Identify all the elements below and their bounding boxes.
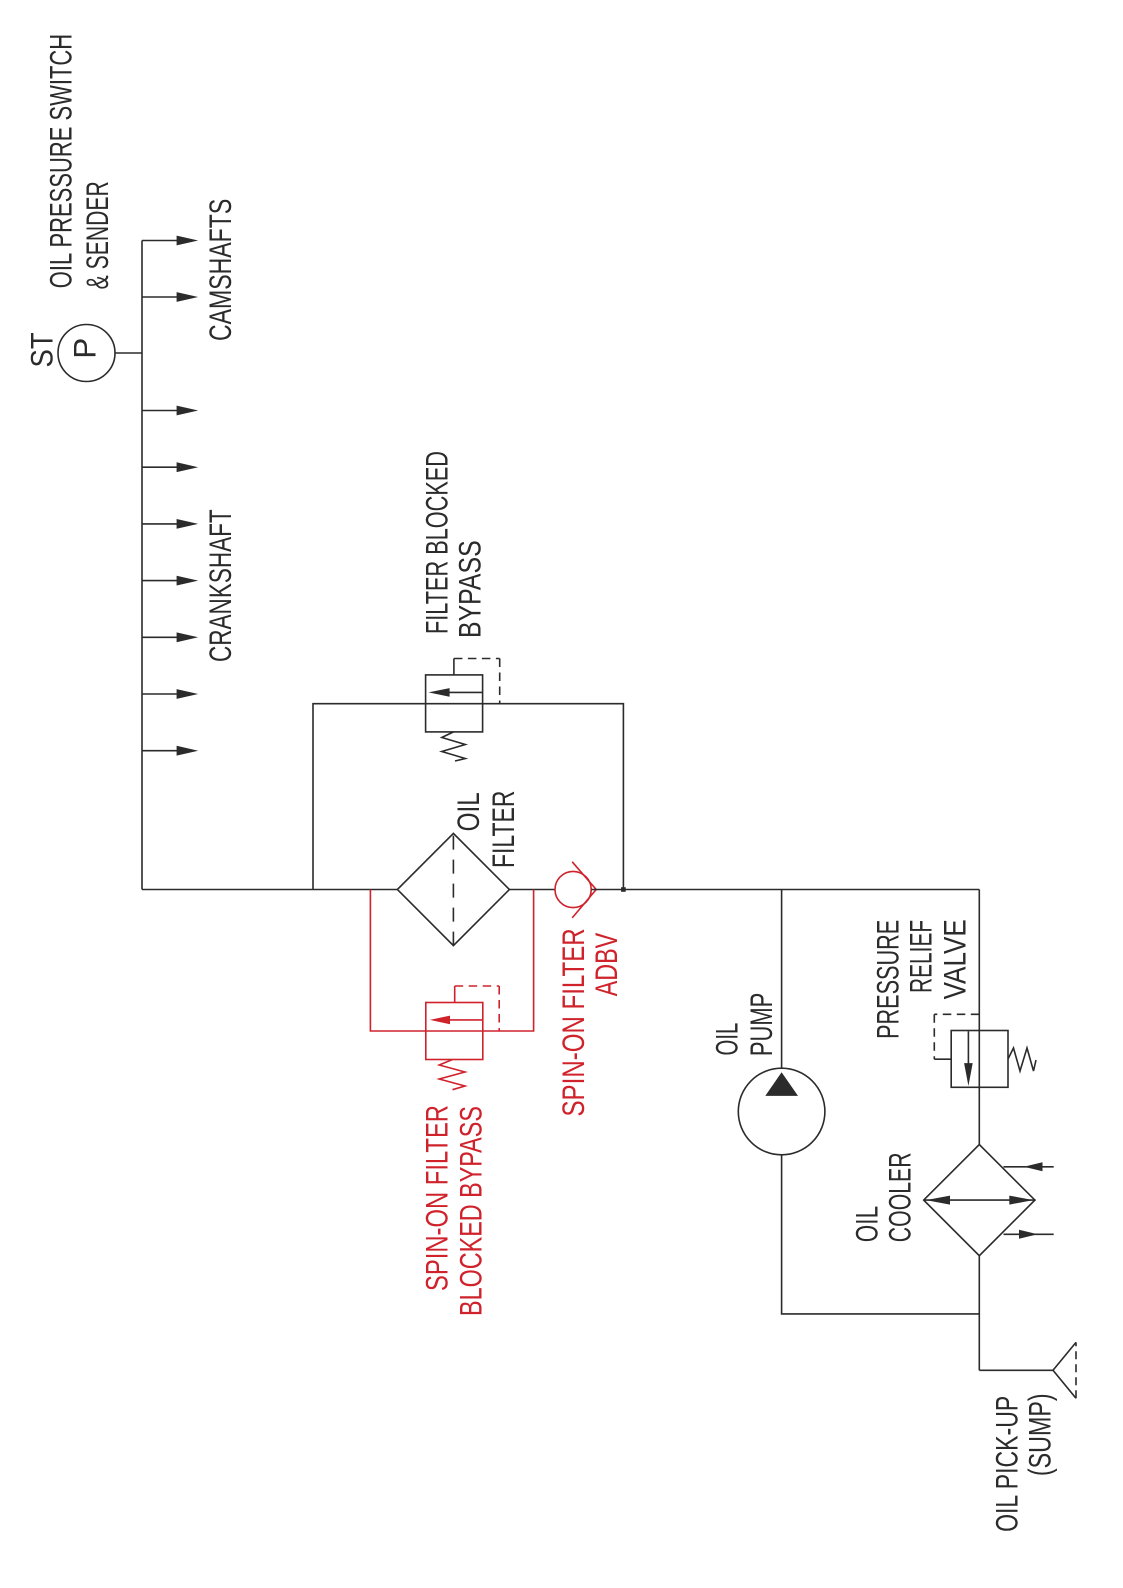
svg-text:RELIEF: RELIEF <box>903 920 939 993</box>
valve flow arrow (up) <box>449 691 483 693</box>
svg-text:OIL: OIL <box>450 792 486 831</box>
wire: trunk filter to ADBV <box>509 889 555 891</box>
check valve: spin-on filter ADBV (circle) <box>555 871 591 907</box>
valve: filter blocked bypass (box) <box>426 675 483 732</box>
wire: trunk ADBV to bottom corner <box>591 889 979 891</box>
strainer mesh (dashed) <box>1075 1342 1077 1398</box>
branch arrow 3 (crankshaft feeds) <box>142 406 198 416</box>
cooler: oil cooler (diamond) <box>924 1145 1035 1256</box>
svg-text:OIL: OIL <box>848 1206 884 1242</box>
svg-text:CRANKSHAFT: CRANKSHAFT <box>202 509 238 662</box>
wire: spin-on bypass upper leg (red) <box>370 890 425 1032</box>
svg-text:ADBV: ADBV <box>588 933 624 997</box>
wire: sender stub <box>115 352 142 354</box>
svg-text:BLOCKED BYPASS: BLOCKED BYPASS <box>453 1106 489 1316</box>
pilot line (red) <box>454 986 456 1003</box>
check valve seat V <box>572 862 596 918</box>
wire: pump discharge <box>781 890 783 1069</box>
branch arrow 5 <box>142 519 198 529</box>
filter: oil filter (diamond) <box>397 833 509 945</box>
svg-text:PUMP: PUMP <box>743 993 779 1056</box>
svg-text:ST: ST <box>24 332 60 367</box>
wire: trunk upper (gallery to filter) <box>142 889 397 891</box>
spring (filter blocked bypass) <box>442 732 466 761</box>
wire: bottom return line (pickup to cooler) <box>978 1256 980 1371</box>
cooler airflow arrow out (down) <box>1004 1233 1054 1235</box>
svg-text:OIL PRESSURE SWITCH: OIL PRESSURE SWITCH <box>43 34 79 288</box>
branch arrow 9 <box>142 746 198 756</box>
branch arrow 8 <box>142 689 198 699</box>
cooler airflow arrow in (up) <box>1004 1166 1054 1168</box>
branch arrow 2 <box>142 292 198 302</box>
svg-text:SPIN-ON FILTER: SPIN-ON FILTER <box>555 928 591 1116</box>
spring (red) <box>439 1060 465 1090</box>
valve: pressure relief (box) <box>951 1031 1008 1088</box>
strainer: oil pick-up funnel <box>1053 1342 1076 1398</box>
pilot line (filter blocked bypass) <box>453 659 455 675</box>
branch arrow 4 <box>142 462 198 472</box>
svg-text:SPIN-ON FILTER: SPIN-ON FILTER <box>419 1105 455 1291</box>
svg-text:PRESSURE: PRESSURE <box>870 920 906 1039</box>
wire: filter blocked bypass upper leg <box>313 704 426 890</box>
svg-text:VALVE: VALVE <box>936 919 972 999</box>
filter element dashed line <box>452 833 454 945</box>
svg-text:OIL PICK-UP: OIL PICK-UP <box>989 1396 1025 1532</box>
relief valve flow arrow (left) <box>967 1031 969 1063</box>
svg-text:FILTER: FILTER <box>485 791 521 869</box>
wire: bypass line through valve <box>426 703 483 705</box>
svg-text:OIL: OIL <box>709 1023 745 1056</box>
branch arrow 6 <box>142 576 198 586</box>
junction: bypass return to trunk <box>621 887 626 892</box>
valve flow arrow (red, up) <box>449 1019 482 1021</box>
wire: pump suction <box>782 1155 980 1314</box>
pilot line (relief valve) <box>934 1014 979 1059</box>
wire: oil gallery (main distribution line) <box>141 241 143 890</box>
svg-text:(SUMP): (SUMP) <box>1022 1393 1058 1476</box>
valve: spin-on filter blocked bypass (red box) <box>426 1003 483 1060</box>
cooler internal double arrow <box>924 1199 1035 1201</box>
branch arrow 7 <box>142 632 198 642</box>
wire: bottom return line (cooler to trunk corner) <box>978 890 980 1145</box>
svg-text:CAMSHAFTS: CAMSHAFTS <box>202 199 238 341</box>
wire: spin-on bypass lower leg (red) <box>483 890 534 1032</box>
svg-text:BYPASS: BYPASS <box>452 540 488 638</box>
branch arrow 1 (camshafts feed) <box>142 236 198 246</box>
wire: pick-up drop <box>979 1369 1053 1371</box>
wire: red line through valve <box>426 1030 483 1032</box>
spring (relief valve) <box>1008 1048 1036 1071</box>
pump: oil pump (circle) <box>738 1068 825 1155</box>
svg-text:P: P <box>67 338 103 359</box>
pump triangle <box>765 1072 798 1096</box>
wire: filter blocked bypass lower leg <box>483 704 624 890</box>
svg-text:& SENDER: & SENDER <box>79 181 115 289</box>
svg-text:FILTER BLOCKED: FILTER BLOCKED <box>418 451 454 634</box>
gauge P (oil pressure switch & sender) <box>58 325 115 382</box>
svg-text:COOLER: COOLER <box>882 1152 918 1242</box>
